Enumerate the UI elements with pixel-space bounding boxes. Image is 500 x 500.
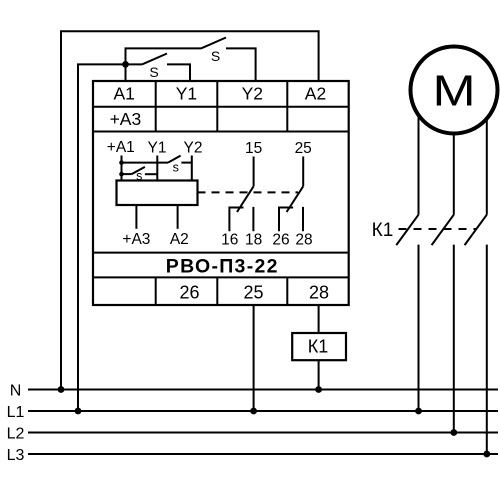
node dot contact2 on L2 [450, 429, 457, 436]
wire junction to A1 terminal [125, 64, 127, 81]
contactor K1 contact arm 2 [432, 215, 454, 245]
wire contact 3 to L3 [486, 245, 488, 454]
node dot L1 feed [75, 408, 82, 415]
switch S upper (junction to Y2) [126, 38, 256, 82]
svg-text:РВО-П3-22: РВО-П3-22 [166, 256, 279, 278]
bottom terminal column dividers [156, 277, 288, 305]
node dot 25 wire on L1 [250, 408, 257, 415]
contact 25-26/28 [279, 157, 303, 232]
motor phase wire 1 [418, 115, 420, 215]
svg-text:Y1: Y1 [176, 83, 197, 103]
svg-text:N: N [10, 382, 22, 399]
label M motor [432, 67, 475, 115]
svg-text:15: 15 [245, 140, 262, 157]
svg-text:К1: К1 [308, 337, 329, 357]
node dot contact3 on L3 [483, 451, 490, 458]
wire block to A2 internal [177, 205, 179, 229]
svg-text:25: 25 [243, 283, 263, 303]
svg-text:К1: К1 [372, 220, 394, 241]
switch s internal (to Y1) [122, 167, 158, 174]
switch S lower (junction to Y1) [126, 54, 191, 82]
svg-text:28: 28 [309, 283, 329, 303]
wire block to +A3 internal [135, 205, 137, 229]
terminal grid row separator 1 [93, 106, 349, 108]
wire contact 2 to L2 [453, 245, 455, 433]
terminal grid row separator 2 [93, 131, 349, 133]
svg-text:S: S [149, 64, 158, 80]
motor M circle [411, 47, 498, 134]
wire N feed up-over to A2 [61, 31, 319, 389]
bus N [28, 389, 498, 391]
svg-text:Y1: Y1 [148, 139, 167, 156]
svg-text:A1: A1 [113, 83, 134, 103]
contact 15-16/18 [229, 157, 253, 232]
svg-text:A2: A2 [170, 231, 189, 248]
wire terminal 28 to K1 coil [318, 305, 320, 333]
separator above type label [93, 252, 349, 254]
node dot K1 wire on N [315, 386, 322, 393]
motor phase wire 3 [486, 118, 488, 215]
svg-text:A2: A2 [305, 83, 326, 103]
wire Y2 internal to block [191, 156, 193, 181]
relay outer box [93, 81, 349, 305]
wire contact 1 to L1 [418, 245, 420, 411]
dashed mechanical link K1 [399, 228, 478, 230]
node dot N feed [58, 386, 65, 393]
svg-text:Y2: Y2 [184, 139, 203, 156]
svg-text:26: 26 [179, 283, 199, 303]
svg-text:+A3: +A3 [110, 109, 142, 129]
svg-text:L3: L3 [7, 447, 25, 464]
svg-text:16: 16 [221, 232, 238, 249]
svg-text:L2: L2 [7, 425, 25, 442]
motor phase wire 2 [453, 130, 455, 215]
bus L1 [28, 410, 498, 412]
timer block [117, 181, 198, 206]
contactor K1 contact arm 3 [465, 215, 487, 245]
wire Y1 internal to block [156, 156, 158, 181]
node dot contact1 on L1 [415, 408, 422, 415]
svg-text:S: S [211, 48, 220, 64]
wire L1 feed up to A1 junction [78, 64, 126, 411]
contactor K1 contact arm 1 [396, 215, 418, 245]
dashed mechanical link internal [198, 191, 299, 193]
node dot internal lower [119, 172, 124, 177]
switch s internal (to Y2) [122, 156, 192, 163]
contactor coil K1 [292, 333, 346, 360]
wire K1 coil to N [318, 360, 320, 389]
svg-text:18: 18 [245, 232, 262, 249]
svg-text:s: s [173, 160, 179, 174]
node junction dot on A1 feed [122, 61, 129, 68]
node dot internal upper [119, 160, 124, 165]
svg-text:28: 28 [295, 232, 312, 249]
wire +A1 to timer block [121, 156, 123, 181]
terminal grid column dividers top [156, 81, 288, 132]
svg-text:26: 26 [272, 232, 289, 249]
separator below type label [93, 276, 349, 278]
svg-text:+A3: +A3 [122, 231, 150, 248]
wire terminal 25 to L1 [253, 305, 255, 411]
svg-text:L1: L1 [7, 404, 25, 421]
bus L2 [28, 432, 498, 434]
svg-text:25: 25 [295, 140, 312, 157]
svg-text:M: M [432, 67, 475, 115]
svg-text:Y2: Y2 [242, 83, 263, 103]
svg-text:+A1: +A1 [107, 139, 135, 156]
bus L3 [28, 453, 498, 455]
